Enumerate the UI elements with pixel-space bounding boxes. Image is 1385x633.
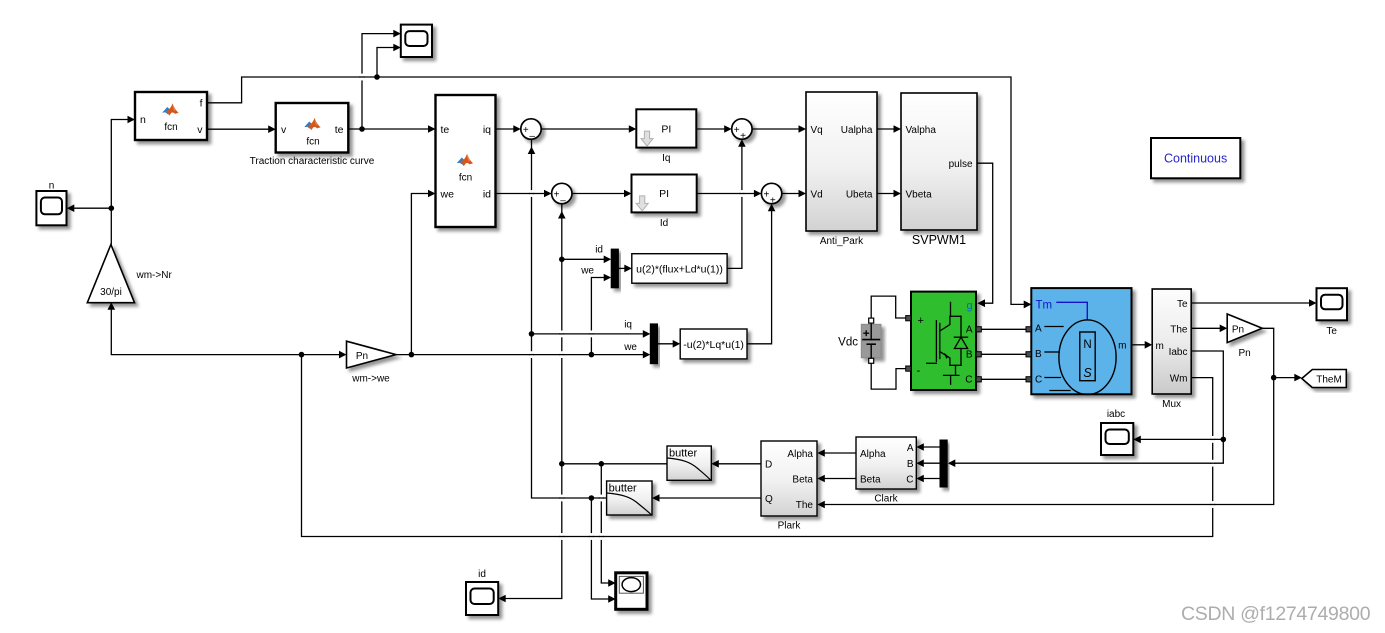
- wire flux expression out up to sum2: [727, 139, 746, 268]
- svg-text:fcn: fcn: [459, 173, 472, 184]
- svg-text:id: id: [478, 569, 486, 580]
- svg-text:iabc: iabc: [1107, 409, 1125, 420]
- svg-text:Plark: Plark: [778, 521, 802, 532]
- wire demux A to Clark A: [916, 443, 940, 451]
- svg-text:Te: Te: [1177, 299, 1188, 310]
- wire sum4 to Anti_Park Vd: [782, 190, 806, 198]
- svg-text:+: +: [918, 315, 924, 327]
- wire te branch up to scope input1: [362, 30, 401, 129]
- subsystem Clark (mirrored): [856, 437, 916, 505]
- motor port squares: [1026, 327, 1031, 382]
- subsystem Anti_Park: [806, 92, 877, 247]
- sum junction 3 (+-) id error: [552, 183, 572, 206]
- wire Clark Alpha to Plark Alpha: [817, 449, 856, 457]
- wire sum1 to PI Iq: [542, 125, 637, 133]
- svg-text:Vq: Vq: [811, 125, 823, 136]
- svg-text:CSDN @f1274749800: CSDN @f1274749800: [1181, 603, 1371, 625]
- wire Ubeta: Anti_Park to SVPWM1 Vbeta: [877, 190, 901, 198]
- wire wm to 30/pi gain: [108, 302, 302, 354]
- wire branch to n scope: [67, 204, 112, 212]
- svg-text:u(2)*(flux+Ld*u(1)): u(2)*(flux+Ld*u(1)): [636, 263, 723, 275]
- svg-text:m: m: [1118, 340, 1126, 351]
- PI controller Iq: [636, 109, 696, 164]
- Fcn block -u(2)*Lq*u(1): [680, 329, 747, 359]
- DC voltage source Vdc: [838, 318, 881, 363]
- svg-text:PI: PI: [661, 124, 671, 136]
- svg-text:B: B: [1035, 349, 1042, 360]
- svg-text:B: B: [966, 350, 973, 361]
- wire demux B to Clark B: [916, 459, 940, 467]
- MATLAB function block fcn1 (n -> f,v): [135, 92, 207, 140]
- sum junction 2 (++) Vq: [732, 119, 752, 142]
- svg-text:Q: Q: [765, 494, 773, 505]
- wire branch to iabc scope: [1133, 436, 1223, 444]
- svg-text:+: +: [763, 190, 769, 201]
- wire f: fcn1 f output to motor Tm: [207, 77, 1031, 308]
- svg-text:The: The: [796, 500, 814, 511]
- wire f branch to scope input2: [377, 44, 401, 77]
- svg-text:+: +: [770, 195, 776, 206]
- svg-text:Tm: Tm: [1036, 300, 1053, 312]
- wire we: Pn output to mux2 we input: [396, 351, 650, 359]
- svg-text:-: -: [917, 365, 921, 377]
- wire junction dots: [109, 74, 1277, 501]
- svg-text:–: –: [560, 195, 566, 206]
- svg-text:+: +: [554, 190, 560, 201]
- wire branch down to XY scope input2: [591, 498, 615, 603]
- wire wm to Pn wm->we input: [302, 351, 347, 359]
- goto tag TheM: [1302, 370, 1347, 388]
- butterworth filter 1: [667, 446, 711, 480]
- svg-text:30/pi: 30/pi: [100, 287, 122, 298]
- svg-text:n: n: [140, 114, 146, 126]
- svg-text:C: C: [965, 375, 972, 386]
- svg-text:C: C: [1035, 375, 1042, 386]
- scope id: [466, 582, 498, 615]
- wire we branch up to fcn2 we input: [411, 190, 435, 355]
- wire iq branch to mux2 iq input: [532, 330, 651, 338]
- svg-text:v: v: [197, 124, 203, 136]
- wire crossing hops: [360, 74, 1215, 540]
- wire we branch up to mux1 we input: [591, 274, 611, 355]
- svg-text:Wm: Wm: [1170, 374, 1188, 385]
- inverter port squares: [906, 316, 982, 382]
- svg-text:A: A: [966, 325, 973, 336]
- svg-text:Traction characteristic curve: Traction characteristic curve: [250, 156, 375, 167]
- svg-text:te: te: [335, 124, 344, 136]
- wire inverter B to motor B: [982, 353, 1028, 355]
- Fcn block u(2)*(flux+Ld*u(1)): [632, 254, 727, 284]
- sum junction 4 (++) Vd: [761, 183, 781, 206]
- PI controller Id: [632, 175, 697, 230]
- subsystem SVPWM1: [901, 93, 977, 247]
- wire PI Id to sum4: [697, 190, 762, 198]
- svg-text:Vbeta: Vbeta: [906, 190, 933, 201]
- svg-text:v: v: [281, 124, 287, 136]
- powergui block Continuous: [1151, 138, 1240, 178]
- wire sum3 to PI Id: [572, 190, 632, 198]
- svg-text:Pn: Pn: [356, 351, 368, 362]
- wire branch to TheM goto tag: [1274, 374, 1302, 382]
- wire mux1 out to flux expression: [618, 265, 631, 273]
- svg-text:Alpha: Alpha: [787, 449, 813, 460]
- svg-text:–: –: [529, 131, 535, 142]
- svg-text:A: A: [1035, 324, 1042, 335]
- XY graph scope: [616, 573, 647, 610]
- svg-text:fcn: fcn: [164, 122, 177, 133]
- svg-text:B: B: [907, 459, 914, 470]
- gain Pn (wm->we) pointing right: [347, 341, 397, 384]
- svg-text:A: A: [907, 443, 914, 454]
- svg-text:Beta: Beta: [860, 475, 881, 486]
- svg-text:TheM: TheM: [1316, 375, 1342, 386]
- measurement demux block Mux: [1152, 289, 1191, 410]
- wire pulse: SVPWM1 to inverter g: [977, 163, 993, 307]
- svg-text:D: D: [765, 460, 772, 471]
- demux bar (iabc to A,B,C): [940, 440, 947, 487]
- svg-text:Iq: Iq: [662, 153, 670, 164]
- svg-text:Ualpha: Ualpha: [841, 125, 873, 136]
- svg-text:f: f: [200, 98, 203, 110]
- wire branch down to XY scope input1: [601, 464, 615, 587]
- svg-text:te: te: [441, 124, 450, 136]
- svg-text:we: we: [623, 342, 637, 353]
- svg-text:fcn: fcn: [306, 137, 319, 148]
- svg-text:Anti_Park: Anti_Park: [820, 236, 864, 247]
- scope n: [36, 191, 66, 225]
- svg-text:+: +: [523, 125, 529, 136]
- wire Te: Mux to Te scope: [1191, 299, 1316, 307]
- wire butter1 output to id feedback line: [562, 463, 667, 465]
- svg-text:Vd: Vd: [811, 190, 823, 201]
- wire id feedback from sum3 vertical to butter1 output: [498, 204, 565, 603]
- svg-text:wm->Nr: wm->Nr: [136, 270, 173, 281]
- svg-text:g: g: [966, 300, 972, 312]
- svg-text:Clark: Clark: [874, 494, 898, 505]
- svg-text:SVPWM1: SVPWM1: [912, 233, 966, 247]
- svg-text:wm->we: wm->we: [351, 374, 390, 385]
- svg-text:N: N: [1083, 339, 1091, 351]
- wire demux C to Clark C: [916, 475, 940, 483]
- svg-text:S: S: [1083, 366, 1092, 380]
- wire Vdc minus wire: [871, 364, 906, 389]
- svg-text:Id: Id: [660, 218, 668, 229]
- svg-text:Vdc: Vdc: [838, 337, 858, 349]
- svg-text:C: C: [906, 475, 913, 486]
- svg-text:iq: iq: [624, 319, 632, 330]
- wire te: Traction te to fcn2 te input: [348, 125, 435, 133]
- svg-text:butter: butter: [669, 448, 697, 460]
- svg-text:Pn: Pn: [1238, 348, 1250, 359]
- wire v: fcn1 v to Traction v input: [207, 125, 276, 133]
- svg-text:Continuous: Continuous: [1164, 152, 1227, 166]
- butterworth filter 2: [607, 481, 652, 515]
- wire Lq expression out up to sum4: [747, 204, 775, 344]
- scope Scope2 (f and te): [401, 25, 432, 57]
- svg-text:pulse: pulse: [949, 159, 973, 170]
- scope Te: [1317, 288, 1348, 320]
- wire PI Iq to sum2: [696, 125, 731, 133]
- svg-text:id: id: [595, 245, 603, 256]
- svg-text:PI: PI: [659, 188, 669, 200]
- subsystem Plark (mirrored): [761, 441, 817, 532]
- svg-text:Alpha: Alpha: [860, 449, 886, 460]
- wire iq: fcn2 iq to sum1: [496, 125, 521, 133]
- svg-text:Pn: Pn: [1232, 325, 1244, 336]
- wire Iabc: Mux down to Clark demux: [948, 351, 1224, 467]
- wire sum2 to Anti_Park Vq: [752, 125, 806, 133]
- svg-text:+: +: [734, 125, 740, 136]
- wire id: fcn2 id to sum3: [496, 190, 552, 198]
- MATLAB function block: Traction characteristic curve (v -> te): [250, 103, 375, 167]
- svg-text:Te: Te: [1326, 326, 1337, 337]
- svg-text:-u(2)*Lq*u(1): -u(2)*Lq*u(1): [683, 339, 744, 351]
- scope iabc: [1101, 423, 1133, 455]
- svg-text:iq: iq: [483, 124, 491, 136]
- MATLAB function block fcn2 (te,we -> iq,id): [436, 95, 496, 227]
- mux Mux1 (id,we): [611, 249, 618, 288]
- svg-text:Mux: Mux: [1162, 399, 1181, 410]
- svg-text:m: m: [1156, 341, 1164, 352]
- arrow into inverter g input: [978, 299, 986, 307]
- svg-text:The: The: [1170, 324, 1188, 335]
- wire inverter A to motor A: [982, 328, 1028, 330]
- svg-text:butter: butter: [609, 483, 637, 495]
- wire The: Pn output down to Plark The input: [817, 328, 1273, 508]
- wire iq feedback from sum1 vertical to butter2 output: [528, 139, 607, 498]
- svg-text:n: n: [49, 181, 55, 192]
- wire n: 30/pi output up to fcn1 n input: [111, 116, 135, 244]
- svg-text:Valpha: Valpha: [906, 125, 937, 136]
- svg-text:we: we: [440, 188, 455, 200]
- wire Plark D to butter1 input: [711, 460, 761, 468]
- wire inverter C to motor C: [982, 378, 1028, 380]
- wire m: motor to Mux: [1132, 341, 1153, 349]
- svg-text:Iabc: Iabc: [1169, 347, 1188, 358]
- svg-text:we: we: [580, 266, 594, 277]
- wire Clark Beta to Plark Beta: [817, 475, 856, 483]
- wire wm: Wm output down and across bottom: [302, 355, 1213, 537]
- svg-text:Beta: Beta: [792, 475, 813, 486]
- gain Pn (The scaling): [1227, 314, 1262, 359]
- arrow into motor Tm input: [1024, 301, 1032, 309]
- gain 30/pi (wm->Nr) pointing up: [87, 245, 172, 303]
- wire The: Mux to Pn gain: [1191, 325, 1227, 333]
- wire Vdc plus wire: [871, 296, 906, 318]
- wire Plark Q to butter2 input: [652, 494, 761, 502]
- IGBT inverter bridge (green): [911, 292, 976, 390]
- PMSM motor block (blue): [1031, 288, 1131, 394]
- wire mux2 out to Lq expression: [657, 340, 680, 348]
- wire Ualpha: Anti_Park to SVPWM1 Valpha: [877, 125, 901, 133]
- svg-text:id: id: [483, 188, 491, 200]
- sum junction 1 (+-) iq error: [521, 119, 541, 142]
- svg-text:+: +: [740, 131, 746, 142]
- svg-text:Ubeta: Ubeta: [846, 190, 873, 201]
- mux Mux2 (iq,we): [650, 324, 657, 364]
- wire id branch to mux1 id input: [562, 256, 611, 264]
